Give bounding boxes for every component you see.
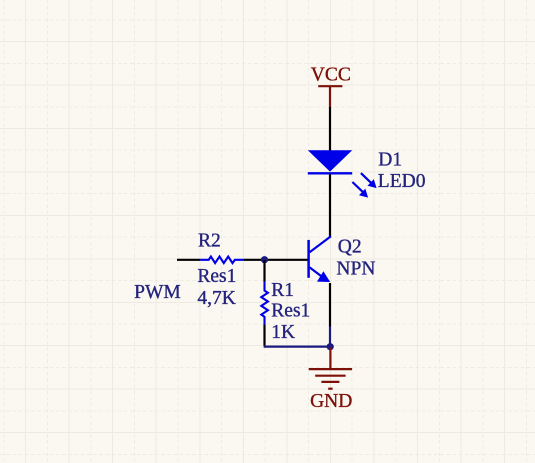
wire R2 to Q2 base xyxy=(244,259,308,261)
value 1K xyxy=(271,322,295,343)
svg-text:Res1: Res1 xyxy=(197,266,236,287)
designator Q2 xyxy=(338,236,362,257)
svg-text:PWM: PWM xyxy=(134,282,181,303)
svg-text:4,7K: 4,7K xyxy=(197,288,235,309)
wire VCC to D1 anode xyxy=(329,107,331,151)
value LED0 xyxy=(378,171,426,192)
designator D1 xyxy=(378,149,402,170)
ground GND xyxy=(309,347,353,412)
wire R1 to ground net xyxy=(263,325,265,346)
designator R2 xyxy=(198,231,221,252)
junction ground node xyxy=(327,343,334,350)
svg-text:LED0: LED0 xyxy=(378,171,426,192)
wire Q2 emitter down xyxy=(329,283,331,327)
resistor R2 xyxy=(200,257,244,264)
wire PWM stub to R2 xyxy=(177,259,200,261)
junction base node xyxy=(261,256,268,263)
value Res1 (R2) xyxy=(197,266,236,287)
LED D1 xyxy=(308,150,377,197)
resistor R1 xyxy=(261,281,268,324)
wire base node to R1 xyxy=(263,260,265,282)
svg-text:GND: GND xyxy=(310,391,352,412)
designator R1 xyxy=(271,280,294,301)
svg-text:NPN: NPN xyxy=(336,259,375,280)
svg-text:D1: D1 xyxy=(378,149,402,170)
value NPN xyxy=(336,259,375,280)
net label PWM xyxy=(134,282,181,303)
transistor Q2 (NPN) xyxy=(309,236,331,282)
power port VCC xyxy=(311,64,351,107)
wire emitter to ground junction xyxy=(329,327,331,347)
svg-text:R2: R2 xyxy=(198,231,221,252)
svg-text:Res1: Res1 xyxy=(271,301,310,322)
value 4,7K xyxy=(197,288,235,309)
svg-text:R1: R1 xyxy=(271,280,294,301)
value Res1 (R1) xyxy=(271,301,310,322)
svg-text:1K: 1K xyxy=(271,322,295,343)
svg-text:Q2: Q2 xyxy=(338,236,362,257)
wire D1 cathode to Q2 collector xyxy=(329,174,331,236)
wire bottom horizontal xyxy=(264,345,330,347)
svg-text:VCC: VCC xyxy=(311,64,351,85)
